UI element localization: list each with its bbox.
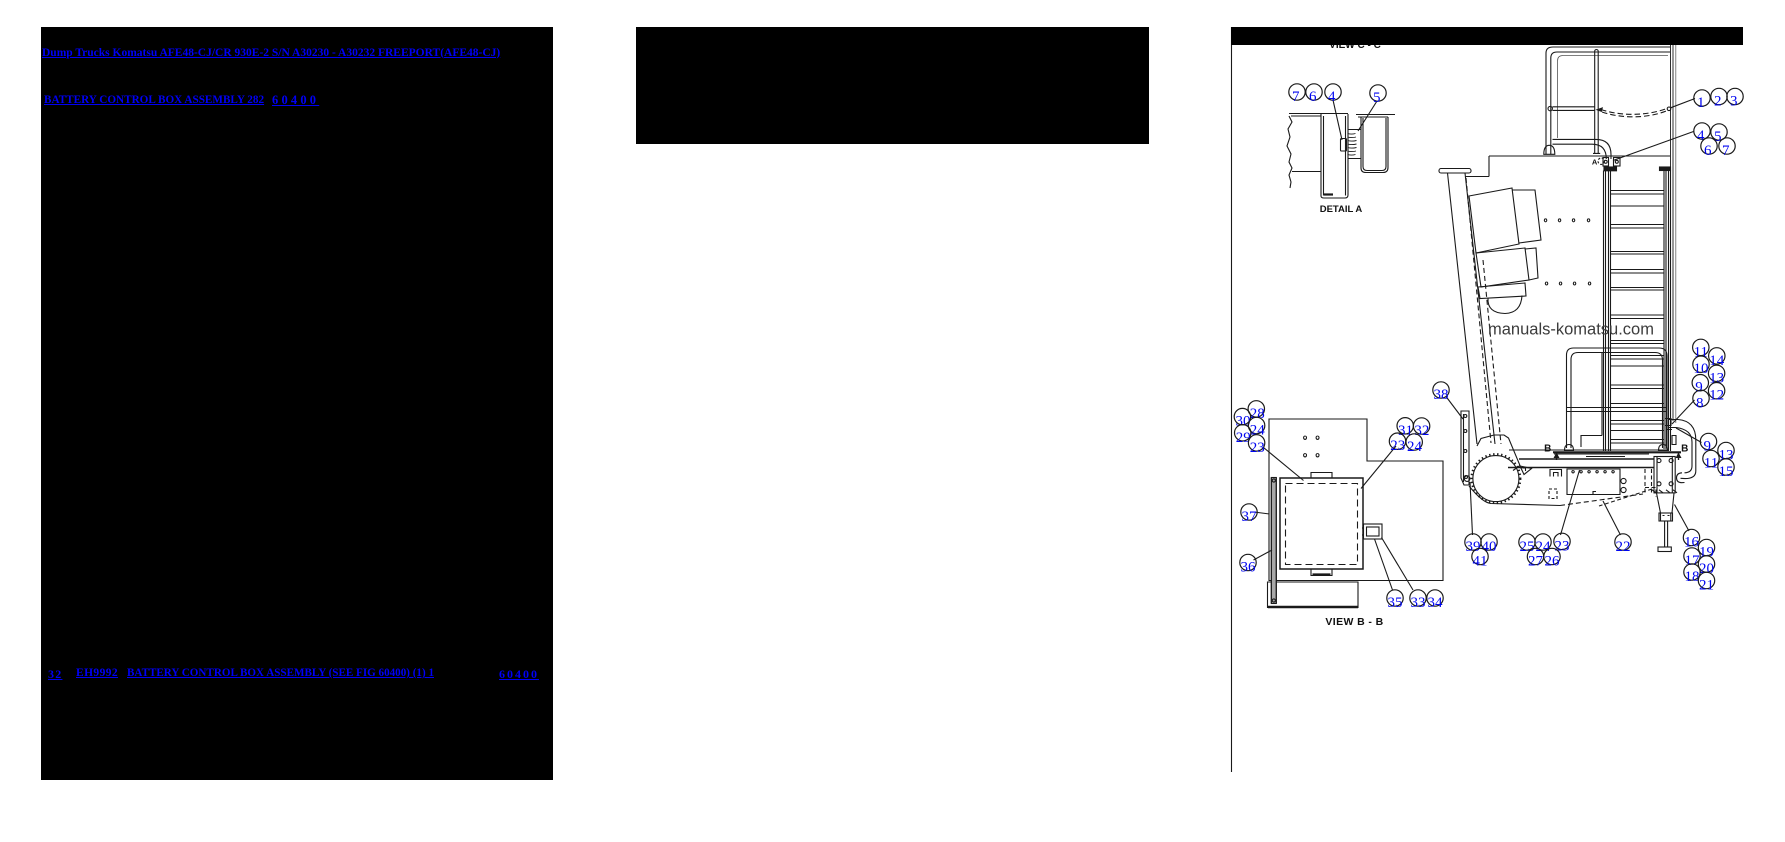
viewBB left channel (1271, 478, 1276, 604)
callout 11 (1703, 450, 1719, 466)
svg-text:8: 8 (1696, 395, 1704, 411)
main: platform left step (1465, 156, 1489, 177)
callout 24 (1248, 417, 1264, 433)
main: mid rail (1553, 107, 1595, 111)
svg-text:B: B (1681, 444, 1688, 455)
detail A: bolt threads (1348, 134, 1357, 156)
ladder right rail (1664, 171, 1671, 452)
main: tilted bottom bar (1478, 283, 1526, 299)
callout 30 (1234, 408, 1250, 424)
main: leader to circles 4-7 (1613, 132, 1694, 161)
detail A: left channel inner (1324, 116, 1346, 196)
deck left small bracket T (1550, 470, 1562, 477)
ladder left rail cap (1604, 167, 1617, 171)
main: swoosh arrowhead (1596, 107, 1604, 112)
svg-text:3: 3 (1730, 94, 1738, 110)
deck bottom contour (1469, 486, 1560, 506)
callout 41 (1472, 548, 1488, 564)
cage step detail (1581, 352, 1602, 447)
leader 23 group (1561, 470, 1580, 535)
callout 25 (1519, 534, 1535, 550)
cylinder pivot tab (1520, 466, 1532, 475)
callout 8 (1693, 390, 1709, 406)
svg-text:15: 15 (1719, 464, 1734, 480)
callout 6 (1701, 138, 1717, 154)
main: T-pipe stem (1448, 173, 1496, 444)
svg-text:23: 23 (1250, 440, 1265, 456)
detail A: channel foot mark (1324, 193, 1333, 195)
svg-text:37: 37 (1242, 509, 1258, 525)
callout 39 (1465, 534, 1481, 550)
svg-text:2: 2 (1714, 94, 1722, 110)
leader 9b (1676, 428, 1702, 443)
svg-text:7: 7 (1292, 89, 1300, 105)
svg-text:26: 26 (1545, 554, 1561, 570)
callout 7 (1719, 138, 1735, 154)
main: tilted box 1 (1469, 188, 1519, 253)
callout 28 (1248, 401, 1264, 417)
callout 26 (1544, 548, 1560, 564)
callout 36 (1240, 554, 1256, 570)
callout 21 (1698, 572, 1714, 588)
svg-text:23: 23 (1555, 538, 1570, 554)
svg-text:6: 6 (1704, 143, 1712, 159)
cage handrail inner (1571, 353, 1663, 449)
deck inner open box (1567, 469, 1620, 495)
cage handrail outer (1567, 348, 1668, 448)
middle black panel (636, 27, 1149, 144)
svg-text:5: 5 (1714, 129, 1722, 145)
viewBB holes (1304, 436, 1320, 457)
cage mid rail (1567, 408, 1668, 412)
svg-text:24: 24 (1407, 439, 1423, 455)
leader 38 (1446, 397, 1463, 420)
callout 27 (1527, 548, 1543, 564)
callout 34 (1427, 590, 1443, 606)
callout 1 (1694, 90, 1710, 106)
cylinder mount bolt (1464, 476, 1470, 482)
callout 33 (1410, 590, 1426, 606)
detail A: leader 5 (1358, 101, 1377, 131)
main: dome (1488, 296, 1522, 314)
deck plate lines (1509, 450, 1663, 457)
viewBB bottom tab2 (1311, 569, 1332, 576)
viewBB leader 36 (1254, 550, 1273, 560)
callout 7 (1289, 84, 1305, 100)
viewBB top tab (1311, 473, 1332, 479)
main: swoosh end circle (1667, 107, 1671, 111)
cage foot bells (1565, 445, 1574, 451)
callout 19 (1698, 539, 1714, 555)
svg-text:34: 34 (1428, 595, 1444, 611)
callout 22 (1615, 534, 1631, 550)
right pipe outer (1669, 420, 1696, 479)
callout 38 (1433, 382, 1449, 398)
leader 16 (1675, 505, 1690, 532)
leg rod (1665, 521, 1668, 547)
callout 20 (1698, 556, 1714, 572)
B arrows (1556, 453, 1558, 460)
callout 32 (1413, 418, 1429, 434)
svg-text:12: 12 (1709, 388, 1724, 404)
main: platform top edge (1489, 155, 1670, 157)
svg-text:22: 22 (1616, 539, 1631, 555)
link line 3 (48, 667, 62, 682)
svg-text:27: 27 (1528, 554, 1544, 570)
callout 18 (1684, 564, 1700, 580)
main: leader swoosh (1601, 108, 1668, 117)
detail A: leader 4 (1333, 100, 1342, 140)
callout 4 (1325, 84, 1341, 100)
detail A: left torn block (1287, 116, 1321, 188)
deck dashed right section (1645, 469, 1652, 495)
link line 2b (272, 93, 319, 108)
svg-text:A: A (1592, 157, 1598, 166)
main: handrail inner line (1551, 52, 1670, 155)
svg-text:4: 4 (1328, 89, 1336, 105)
detail A: left channel (1321, 114, 1348, 198)
viewBB leader 23L (1264, 448, 1304, 481)
callout 11 (1693, 339, 1709, 355)
callout 10 (1693, 356, 1709, 372)
viewBB outer outline (1269, 419, 1443, 581)
svg-text:33: 33 (1411, 595, 1426, 611)
main: A-bracket squares (1603, 158, 1609, 167)
main: dashed panel diagonals (1466, 178, 1491, 443)
callout 4 (1694, 123, 1710, 139)
callout 17 (1684, 548, 1700, 564)
callout 15 (1718, 459, 1734, 475)
svg-text:DETAIL A: DETAIL A (1320, 204, 1363, 215)
detail A: right channel inner (1363, 118, 1386, 171)
svg-text:4: 4 (1697, 128, 1705, 144)
callout 24 (1406, 434, 1422, 450)
callout 23 (1554, 533, 1570, 549)
svg-text:18: 18 (1685, 569, 1700, 585)
right support bracket (1654, 457, 1675, 493)
svg-text:9: 9 (1704, 439, 1712, 455)
deck box side circles (1621, 478, 1626, 483)
callout 3 (1727, 88, 1743, 104)
main: dot row 2 (1545, 282, 1590, 285)
leader 39 (1470, 482, 1473, 535)
callout 5 (1711, 124, 1727, 140)
svg-text:35: 35 (1388, 595, 1403, 611)
ladder left rail (1604, 171, 1611, 452)
main: T-pipe cap (1439, 169, 1471, 174)
main: lower elbow rail (1553, 139, 1612, 159)
callout 16 (1683, 529, 1699, 545)
callout 6 (1306, 84, 1322, 100)
callout 37 (1241, 504, 1257, 520)
callout 24 (1535, 534, 1551, 550)
detail A: right channel (1361, 117, 1388, 173)
svg-text:41: 41 (1473, 554, 1488, 570)
callout 40 (1481, 534, 1497, 550)
callout 14 (1709, 348, 1725, 364)
viewBB leader 35 (1375, 539, 1393, 590)
ladder rungs (1611, 191, 1665, 444)
callout 29 (1235, 425, 1251, 441)
B section line (1553, 451, 1681, 453)
leader 22 (1603, 501, 1621, 535)
svg-text:31: 31 (1398, 423, 1413, 439)
svg-text:11: 11 (1704, 456, 1718, 472)
main: dot row 1 (1544, 219, 1589, 222)
callout 9 (1692, 375, 1708, 391)
main: handrail foot bell (1544, 145, 1555, 154)
callout 9 (1700, 433, 1716, 449)
callout 23 (1248, 435, 1264, 451)
leader 8 (1672, 400, 1695, 424)
svg-text:23: 23 (1390, 438, 1405, 454)
leg taper (1657, 493, 1675, 513)
leg foot bracket (1659, 513, 1673, 521)
main: structure inner rect (1558, 56, 1669, 139)
svg-text:VIEW B - B: VIEW B - B (1325, 616, 1383, 628)
svg-text:32: 32 (1414, 423, 1429, 439)
cylinder body (1473, 456, 1519, 502)
ladder right rail cap (1660, 167, 1671, 171)
viewBB inner dashed rect (1286, 484, 1358, 565)
viewBB leader 33 (1382, 538, 1414, 591)
svg-text:21: 21 (1699, 578, 1714, 594)
deck box bottom tick (1593, 492, 1596, 495)
viewBB bottom tab (1268, 582, 1359, 608)
panel top black bar (1231, 27, 1743, 45)
deck hanging bracket (1549, 489, 1557, 499)
callout 5 (1370, 85, 1386, 101)
callout 13 (1718, 442, 1734, 458)
svg-text:5: 5 (1373, 90, 1381, 106)
callout 13 (1708, 365, 1724, 381)
main: platform outer rect right edge (1671, 45, 1674, 421)
panel left border line (1231, 27, 1233, 772)
callout 12 (1708, 383, 1724, 399)
link line 1 (42, 47, 500, 59)
viewBB leader 23R (1361, 446, 1396, 489)
left black panel (41, 27, 553, 780)
item38 channel bracket (1461, 411, 1469, 485)
deck bottom dashed tarp (1560, 494, 1643, 506)
main: handrail mid post (1593, 50, 1600, 154)
main: leader to circles 1-3 (1671, 99, 1696, 108)
main: tilted box 2 (1476, 248, 1529, 287)
viewBB leader 37 (1254, 512, 1270, 514)
main: tilted box 2 right ext (1525, 248, 1538, 280)
right pipe inner (1669, 428, 1692, 473)
svg-text:7: 7 (1722, 143, 1730, 159)
viewBB inner box (1280, 478, 1363, 569)
cylinder hatch ring (1472, 454, 1521, 503)
svg-text:36: 36 (1241, 560, 1257, 576)
svg-text:6: 6 (1309, 89, 1317, 105)
callout 23 (1389, 433, 1405, 449)
svg-text:manuals-komatsu.com: manuals-komatsu.com (1488, 321, 1654, 339)
svg-text:1: 1 (1697, 95, 1705, 111)
detail A: left flange top lines (1289, 114, 1348, 117)
deck band (1508, 459, 1654, 468)
link line 2 (44, 94, 264, 106)
svg-text:9: 9 (1695, 380, 1703, 396)
deck box hinge dots (1572, 471, 1614, 473)
leg foot crossbar (1658, 547, 1671, 552)
cage right foot bell (1659, 445, 1668, 451)
right small bracket mid (1672, 436, 1676, 445)
svg-text:38: 38 (1434, 387, 1449, 403)
callout 2 (1711, 88, 1727, 104)
callout 31 (1397, 418, 1413, 434)
main: handrail outer loop (1546, 47, 1670, 155)
right pipe bottom cap (1677, 473, 1685, 483)
viewBB right attach box (1364, 524, 1383, 539)
svg-text:B: B (1544, 444, 1551, 455)
detail A: right flange top lines (1356, 115, 1395, 118)
detail A: bolt (1341, 139, 1347, 152)
right hook bracket (1665, 419, 1672, 430)
cylinder pivot collar (1477, 435, 1520, 471)
main: mid rail end circle (1548, 106, 1552, 110)
main: tilted box 1 right ext (1512, 190, 1541, 243)
callout 35 (1387, 590, 1403, 606)
leg leader line (1599, 489, 1652, 506)
detail A: connector plate lines (1348, 130, 1362, 159)
